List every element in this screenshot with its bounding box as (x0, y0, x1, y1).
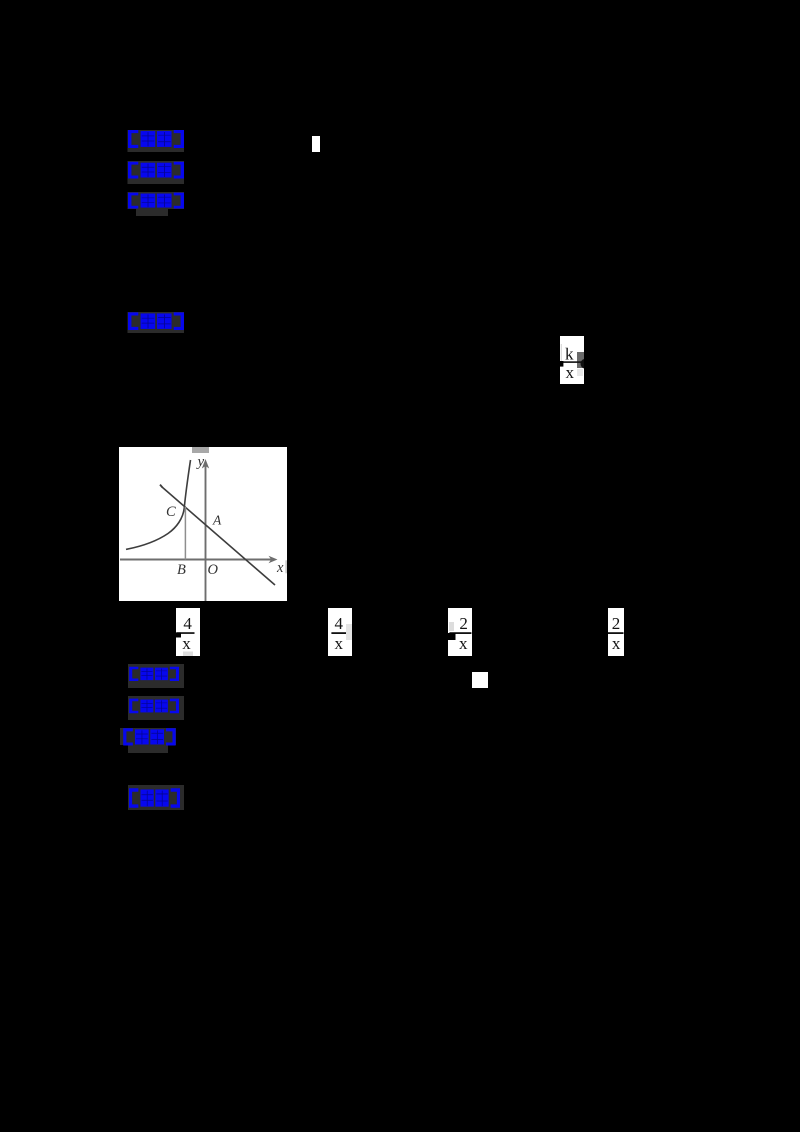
svg-text:x: x (182, 634, 191, 653)
label zhuanti lower (131, 700, 178, 713)
fraction -2/x third (448, 608, 472, 656)
svg-text:2: 2 (612, 614, 621, 633)
equation image k/x (560, 336, 584, 384)
figure: hyperbola and line graph (119, 447, 287, 606)
small white box line1 (312, 136, 320, 152)
label fenxi lower (larger, shifted left) (125, 729, 174, 744)
label jieda lower (larger) (131, 789, 179, 806)
svg-text:x: x (335, 634, 344, 653)
fraction 4/x second (328, 608, 352, 656)
svg-text:x: x (276, 560, 284, 576)
svg-text:O: O (208, 562, 219, 578)
svg-text:C: C (166, 504, 176, 520)
label fenxi top (130, 163, 183, 178)
svg-text:x: x (566, 363, 575, 382)
label kaodian lower (131, 668, 178, 681)
svg-text:A: A (212, 513, 222, 528)
label kaodian top (130, 131, 183, 147)
svg-text:x: x (459, 634, 468, 653)
descending line (162, 487, 275, 585)
svg-text:B: B (177, 562, 186, 578)
svg-text:4: 4 (183, 614, 192, 633)
lower label group highlights (128, 664, 184, 688)
svg-text:2: 2 (459, 614, 468, 633)
gray artifact at top (192, 447, 209, 453)
svg-text:4: 4 (335, 614, 344, 633)
svg-text:y: y (196, 454, 205, 470)
y axis (205, 462, 207, 601)
white answer square (472, 672, 488, 688)
label dianping top (130, 313, 183, 329)
fraction 2/x fourth (608, 608, 624, 656)
x axis (120, 559, 274, 561)
hyperbola branch (126, 460, 191, 549)
svg-text:k: k (565, 345, 574, 364)
svg-text:x: x (612, 634, 621, 653)
CB vertical segment (184, 507, 186, 560)
top label group highlights (128, 130, 185, 152)
label jieda top (130, 194, 183, 208)
fraction 4/x first (176, 608, 200, 656)
